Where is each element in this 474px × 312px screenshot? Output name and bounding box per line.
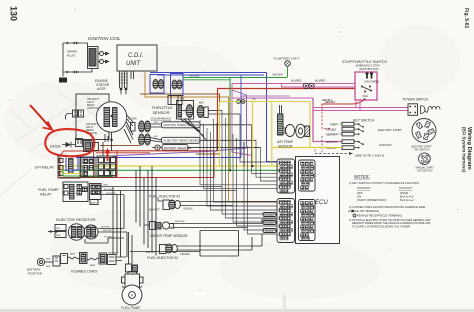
fuel pump relay socket xyxy=(90,184,102,200)
throttle sensor body xyxy=(177,101,194,120)
wire pink key feed xyxy=(313,98,342,142)
key switch terminal row 1 xyxy=(342,122,354,126)
svg-text:RED: RED xyxy=(56,235,61,237)
svg-text:130: 130 xyxy=(9,6,19,21)
svg-text:START (MOMENTARY): START (MOMENTARY) xyxy=(357,198,387,202)
svg-text:(EFI System Harness): (EFI System Harness) xyxy=(462,127,467,173)
svg-text:FUEL INJECTOR #2: FUEL INJECTOR #2 xyxy=(147,256,178,260)
svg-text:FUEL PUMP: FUEL PUMP xyxy=(38,188,59,192)
wire yellow key feed xyxy=(272,147,342,149)
svg-text:BLK/RED: BLK/RED xyxy=(265,215,275,217)
key switch terminal row 3 xyxy=(342,132,354,136)
svg-text:ECU: ECU xyxy=(315,200,328,206)
key switch terminal row 2 xyxy=(342,127,354,131)
air temp sensor bulb 1 xyxy=(285,125,294,137)
CDI bundle terminals xyxy=(120,88,123,91)
wire label tags at ECU B xyxy=(263,213,276,233)
wire red main bus xyxy=(218,88,356,90)
svg-text:BLU/RED: BLU/RED xyxy=(315,79,326,82)
svg-text:RED: RED xyxy=(46,258,51,260)
wire from inj timing box xyxy=(200,139,256,141)
svg-text:EFI RELAY: EFI RELAY xyxy=(35,166,55,170)
svg-text:BLK: BLK xyxy=(154,122,159,124)
black long line relay to ecu xyxy=(120,190,237,192)
battery positive lead xyxy=(45,261,53,263)
svg-text:WATER TEMP SENSOR: WATER TEMP SENSOR xyxy=(150,234,188,238)
EFI relay green lead xyxy=(63,170,112,176)
svg-text:IGNITION: IGNITION xyxy=(379,143,392,147)
scan smudge bottom xyxy=(283,294,286,312)
EFI relay coil bar xyxy=(69,159,74,174)
wire blue relay bus xyxy=(76,157,241,159)
wire purple stub xyxy=(232,90,247,95)
ECU inner pin column D xyxy=(299,200,316,241)
red pen arrowhead xyxy=(43,122,53,130)
wire purple diagonal xyxy=(110,95,247,166)
air temp connector bar xyxy=(278,114,284,135)
connector on top wire xyxy=(67,42,76,45)
fusable link wave 2 xyxy=(87,258,99,260)
svg-text:YEL/BLK: YEL/BLK xyxy=(265,231,274,233)
svg-text:TO SUPPLY STARTER SOLENOID C: TO SUPPLY STARTER SOLENOID COIL POWER xyxy=(352,224,410,228)
svg-text:BRN/WHT: BRN/WHT xyxy=(326,141,338,144)
connector box under loop2 xyxy=(168,96,182,105)
connector loop 1 blue xyxy=(150,75,164,94)
svg-text:SENSOR: SENSOR xyxy=(153,110,170,115)
dashed drops to note line xyxy=(315,136,322,154)
box BATTERY NEGATIVE xyxy=(162,145,188,151)
diode connector b xyxy=(84,141,93,152)
key switch contacts ignition xyxy=(354,142,362,148)
wire yellow top extend xyxy=(220,101,241,103)
EFI relay body xyxy=(58,156,80,178)
wire pink tether double xyxy=(313,108,408,111)
injector resistor leads out xyxy=(85,229,127,244)
wire red relay left xyxy=(60,151,96,178)
svg-text:POSITIVE: POSITIVE xyxy=(28,271,43,275)
key switch contacts electric start xyxy=(354,124,362,134)
wire red switch leg xyxy=(322,100,364,104)
injector resistor can 2 xyxy=(84,225,98,239)
svg-text:INJECTOR TIMING SENSOR: INJECTOR TIMING SENSOR xyxy=(164,139,201,143)
EFI relay yellow lead xyxy=(62,166,87,174)
wire yellow bus xyxy=(62,165,279,167)
svg-text:COLOR=BLACK: COLOR=BLACK xyxy=(151,117,172,121)
svg-text:YEL/BLK: YEL/BLK xyxy=(183,208,193,211)
svg-text:(PUSH BUTTON): (PUSH BUTTON) xyxy=(359,68,379,71)
svg-text:1) KEY SWITCH CONTACT CLOSURE: 1) KEY SWITCH CONTACT CLOSURES AS FOLLOW… xyxy=(349,181,420,185)
vertical feeders left group xyxy=(113,187,127,258)
fuel pump relay coil bar xyxy=(70,185,75,200)
svg-text:PLUG: PLUG xyxy=(67,54,76,58)
wires CDI to stator box xyxy=(121,90,126,94)
stator circle xyxy=(96,102,126,132)
fuel pump top housing xyxy=(125,274,140,287)
svg-text:KEY SWITCH: KEY SWITCH xyxy=(418,169,433,172)
wire spark plug top xyxy=(63,43,88,47)
ignition coil body xyxy=(88,47,99,69)
svg-text:IDLE: IDLE xyxy=(363,95,369,98)
svg-text:2) CONNECTORS SHOWN FROM MATI: 2) CONNECTORS SHOWN FROM MATING SURFACE … xyxy=(348,205,425,209)
svg-text:SENSOR: SENSOR xyxy=(278,144,293,148)
stator output leads right xyxy=(124,115,133,143)
svg-text:P: P xyxy=(131,293,134,298)
wire purple horizontal xyxy=(241,95,291,97)
note 3 male xyxy=(351,210,354,213)
svg-text:STOP/THROTTLE SWITCH: STOP/THROTTLE SWITCH xyxy=(342,60,387,64)
wire from ign timing box xyxy=(200,124,252,126)
battery connector boxes xyxy=(53,256,60,266)
fusable link box 2 xyxy=(99,253,107,264)
CDI wires bundle 2 xyxy=(131,71,134,79)
air temp sensor bulb 2 xyxy=(296,124,306,138)
svg-text:RED/BLK: RED/BLK xyxy=(326,129,337,132)
svg-text:AWG: AWG xyxy=(69,253,75,256)
wire brown mid xyxy=(100,145,140,147)
svg-text:FUSABLE LINKS: FUSABLE LINKS xyxy=(71,270,98,274)
black fan drops into ECU B xyxy=(207,128,278,206)
ECU inner pin column C xyxy=(299,160,316,191)
svg-text:BLK/WHT: BLK/WHT xyxy=(265,223,275,225)
svg-text:BLK/YEL: BLK/YEL xyxy=(101,227,111,229)
stator winding bar 2 xyxy=(113,108,118,127)
svg-text:NOTES:: NOTES: xyxy=(354,174,370,179)
red pen small arrow at relay xyxy=(107,150,109,161)
stator ground lead xyxy=(111,132,113,139)
wire pink stop box drops xyxy=(356,101,360,111)
wire red loop second xyxy=(96,152,150,154)
wire pink return line xyxy=(282,84,356,88)
svg-text:RED: RED xyxy=(56,228,61,230)
svg-text:(SEE NOTE 1 AND 4): (SEE NOTE 1 AND 4) xyxy=(355,154,384,158)
svg-text:BLK: BLK xyxy=(154,136,159,138)
wire timing sensor 1 xyxy=(150,124,161,127)
dashed see note line xyxy=(315,153,349,155)
wire headlight left xyxy=(66,114,73,120)
fusable link out connector xyxy=(108,255,117,265)
svg-text:LT GRN: LT GRN xyxy=(128,118,137,121)
vertical feeders center group xyxy=(136,166,156,256)
wire throttle out 2 xyxy=(208,113,240,115)
fuel pump feed wires xyxy=(129,232,133,264)
svg-text:FUEL INJECTOR #1: FUEL INJECTOR #1 xyxy=(149,195,180,199)
wire red loop bottom xyxy=(60,177,214,179)
scan smudge streaks xyxy=(0,70,205,196)
wire timing sensor 2 xyxy=(150,138,161,143)
wire from battery negative xyxy=(188,146,261,148)
wire loop bottom rect xyxy=(130,231,239,257)
svg-text:HIGH SPEED: HIGH SPEED xyxy=(365,81,380,84)
connector on bottom wire xyxy=(67,71,76,74)
headlight connector a xyxy=(73,110,78,117)
svg-text:C.D.I.: C.D.I. xyxy=(128,53,143,59)
wires from stator to diode area xyxy=(78,134,108,144)
svg-text:DIODE: DIODE xyxy=(50,145,61,149)
wire throttle out 1 xyxy=(208,110,222,112)
air temp wires up xyxy=(280,105,282,114)
coil HT terminal 2 xyxy=(100,60,104,64)
bullet connector pair on pink xyxy=(303,83,308,88)
wire green CDI to battery light xyxy=(183,77,288,79)
battery negative ring xyxy=(155,145,160,150)
small connector rect xyxy=(131,123,136,132)
wires fusable to pump verticals xyxy=(116,257,126,261)
EFI relay connector block xyxy=(97,156,116,177)
svg-text:(SWITCH): (SWITCH) xyxy=(87,106,99,110)
svg-text:WHT: WHT xyxy=(103,185,109,187)
svg-text:RED/BLU: RED/BLU xyxy=(322,99,333,102)
svg-text:RED/WHT: RED/WHT xyxy=(326,134,338,137)
fuel injector 2 leads xyxy=(177,234,262,250)
wire red loop top xyxy=(96,150,218,152)
wire pink vertical from A xyxy=(231,84,233,99)
wire red loop inner verticals xyxy=(94,151,118,178)
tether switch cap and coil xyxy=(421,106,441,114)
wire red loop right vertical xyxy=(213,151,215,178)
svg-text:3) MALE PIN TERMINAL: 3) MALE PIN TERMINAL xyxy=(348,209,380,213)
svg-text:YEL/BLK: YEL/BLK xyxy=(104,236,113,238)
wire spark plug bottom xyxy=(63,69,92,73)
wire yellow top horizontal xyxy=(240,101,310,103)
wire orange from CDI xyxy=(145,71,278,202)
injector resistor can 1 xyxy=(68,224,84,240)
svg-text:TETHER SWITCH: TETHER SWITCH xyxy=(402,98,429,102)
connector oval pair 1 xyxy=(139,121,145,132)
throttle sensor plug xyxy=(197,106,204,118)
wire blue bus top xyxy=(150,73,267,76)
wire pink ecu drop xyxy=(232,98,252,156)
note 3 female xyxy=(353,214,356,217)
svg-text:FUEL PUMP: FUEL PUMP xyxy=(121,306,141,310)
injector resistor lead in xyxy=(48,231,58,233)
key switch terminal row 5 xyxy=(342,146,354,150)
black fan drops into ECU A xyxy=(200,120,278,185)
fuel injector 2 body xyxy=(160,245,167,254)
connector oval pair 2 xyxy=(139,134,145,145)
wire red dashed to key xyxy=(322,104,330,129)
CDI wire bundle down xyxy=(120,71,128,88)
water temp leads xyxy=(144,224,262,228)
connector pair in loop2 xyxy=(172,80,177,89)
wire pink bus A xyxy=(232,83,355,85)
bullet pair on yellow xyxy=(237,100,241,104)
svg-text:AWG: AWG xyxy=(89,264,95,267)
ground spark plug pad xyxy=(59,78,67,83)
air temp sensor plug xyxy=(305,126,310,137)
throttle sensor oval xyxy=(186,105,193,118)
svg-text:Fig. 5-61: Fig. 5-61 xyxy=(463,8,469,29)
black line water temp long xyxy=(262,219,278,224)
wire blue riser xyxy=(240,75,242,158)
svg-text:RED: RED xyxy=(46,266,51,268)
junction dots on buses xyxy=(229,169,231,171)
wire pink bus B xyxy=(232,97,313,99)
svg-text:BLK/GRN: BLK/GRN xyxy=(175,221,185,223)
svg-text:BLK/WHT: BLK/WHT xyxy=(149,209,160,212)
stator center dot xyxy=(110,115,113,118)
fuel pump relay leads xyxy=(101,187,124,195)
EFI relay pins xyxy=(59,159,63,163)
battery positive ring terminal xyxy=(37,258,44,265)
red pen annotation loop xyxy=(45,129,94,156)
fusable link box 1 xyxy=(80,253,88,264)
svg-text:KEY SWITCH: KEY SWITCH xyxy=(415,149,430,152)
ECU connector block A xyxy=(277,159,295,193)
svg-text:ELECTRIC START: ELECTRIC START xyxy=(378,128,402,132)
CDI unit box xyxy=(117,45,157,71)
fusable link wave 1 xyxy=(68,257,80,259)
ECU connector block B xyxy=(277,199,295,243)
svg-text:YEL/GRN: YEL/GRN xyxy=(272,74,283,77)
diode connector c xyxy=(93,143,99,151)
wire blue vertical right xyxy=(267,73,278,162)
fuel injector 1 body xyxy=(163,200,170,210)
svg-text:POSITION: POSITION xyxy=(357,186,371,190)
fuel pump body xyxy=(122,285,142,305)
svg-text:IGNITION COIL: IGNITION COIL xyxy=(88,36,121,41)
svg-text:FEMALE RECEPTACLE TERMINAL: FEMALE RECEPTACLE TERMINAL xyxy=(357,214,403,218)
EFI relay socket group xyxy=(81,157,95,177)
spark plug lead xyxy=(62,43,64,77)
wire green lower stub xyxy=(183,79,230,81)
EFI relay blue jumper xyxy=(66,158,78,171)
stator winding bar 1 xyxy=(104,108,110,127)
headlight connector b xyxy=(79,110,84,117)
fuel injector 1 leads xyxy=(158,198,278,206)
svg-text:W/BLK: W/BLK xyxy=(91,203,98,205)
connector pair in loop1 xyxy=(153,79,158,88)
wire red vertical xyxy=(217,89,219,151)
svg-text:BLK: BLK xyxy=(199,102,204,105)
extra fan lines into ecu A xyxy=(240,114,278,162)
wire purple link xyxy=(241,95,247,97)
svg-text:ASSY: ASSY xyxy=(96,87,107,91)
injector resistor connector boxes xyxy=(55,225,66,231)
svg-text:BATTERY NEGATIVE: BATTERY NEGATIVE xyxy=(164,146,191,150)
coil HT terminal 1 xyxy=(100,52,104,56)
diode symbol xyxy=(66,142,72,147)
svg-text:KEY SWITCH: KEY SWITCH xyxy=(353,119,375,123)
svg-text:BLK: BLK xyxy=(180,98,185,101)
air temp wire links xyxy=(283,128,296,133)
tether connector box xyxy=(408,104,418,116)
svg-text:B+S & A+1: B+S & A+1 xyxy=(400,198,414,202)
fuel pump relay body xyxy=(63,182,88,202)
fuel pump connector xyxy=(126,264,132,272)
stop switch box pink xyxy=(355,72,377,100)
wire green riser xyxy=(229,77,231,170)
battery light bulb xyxy=(285,61,291,67)
wire yellow riser 2 xyxy=(219,102,221,167)
wire green bulb drop xyxy=(287,66,289,77)
stop switch contacts xyxy=(362,87,371,91)
box IGNITION TIMING SENSOR xyxy=(162,122,201,128)
throttle sensor drop fan xyxy=(180,119,207,141)
electric start key switch circle xyxy=(412,119,436,143)
red pen arrow tail xyxy=(30,105,51,128)
svg-text:YEL/BLK: YEL/BLK xyxy=(180,253,190,256)
wire brown top xyxy=(140,94,220,154)
stator to relay verticals xyxy=(103,141,112,156)
wire green long bus xyxy=(63,169,279,171)
svg-text:BLU/RED: BLU/RED xyxy=(291,79,302,82)
svg-text:RED/WHT: RED/WHT xyxy=(106,193,117,195)
svg-text:INJECTOR RESISTOR: INJECTOR RESISTOR xyxy=(56,218,96,222)
stator assy box xyxy=(76,94,109,140)
emergency stop button pins xyxy=(366,73,374,79)
extra black drops right xyxy=(214,119,278,202)
manual start key switch circle xyxy=(419,153,431,165)
diode connector a xyxy=(76,139,83,147)
svg-text:UNIT: UNIT xyxy=(126,61,141,67)
wire yellow riser xyxy=(252,102,254,167)
connector loop 2 blue xyxy=(171,74,184,96)
wire yellow air temp loop xyxy=(272,102,310,167)
box INJECTOR TIMING SENSOR xyxy=(162,137,201,143)
svg-text:CONTACT: CONTACT xyxy=(399,186,413,190)
svg-text:TO BATTERY LIGHT: TO BATTERY LIGHT xyxy=(273,57,299,61)
small box under relay xyxy=(90,200,98,205)
scanner bottom edge shadow xyxy=(0,309,474,312)
svg-text:BLK/YEL: BLK/YEL xyxy=(103,230,113,232)
svg-text:RELAY: RELAY xyxy=(40,193,52,197)
water temp sensor top connector xyxy=(150,222,156,230)
ECU box xyxy=(296,157,340,244)
key switch terminal row 4 xyxy=(342,140,354,144)
